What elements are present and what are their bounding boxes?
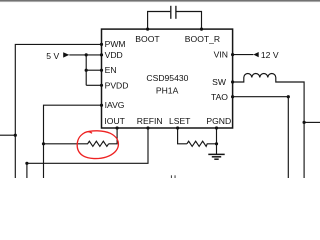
svg-text:IAVG: IAVG (105, 100, 125, 110)
svg-text:BOOT_R: BOOT_R (185, 34, 220, 44)
svg-text:REFIN: REFIN (137, 116, 163, 126)
svg-text:PH1A: PH1A (156, 86, 179, 96)
svg-text:12 V: 12 V (261, 50, 279, 60)
svg-text:VDD: VDD (105, 50, 123, 60)
svg-text:TAO: TAO (211, 92, 228, 102)
svg-text:PGND: PGND (206, 116, 231, 126)
svg-text:VIN: VIN (214, 49, 228, 59)
svg-text:SW: SW (212, 77, 227, 87)
svg-text:CSD95430: CSD95430 (146, 73, 188, 83)
svg-text:5 V: 5 V (46, 51, 59, 61)
svg-text:PVDD: PVDD (105, 80, 129, 90)
svg-text:EN: EN (105, 65, 117, 75)
svg-text:IOUT: IOUT (104, 116, 125, 126)
svg-text:LSET: LSET (169, 116, 191, 126)
svg-text:PWM: PWM (105, 39, 126, 49)
svg-text:BOOT: BOOT (135, 34, 160, 44)
